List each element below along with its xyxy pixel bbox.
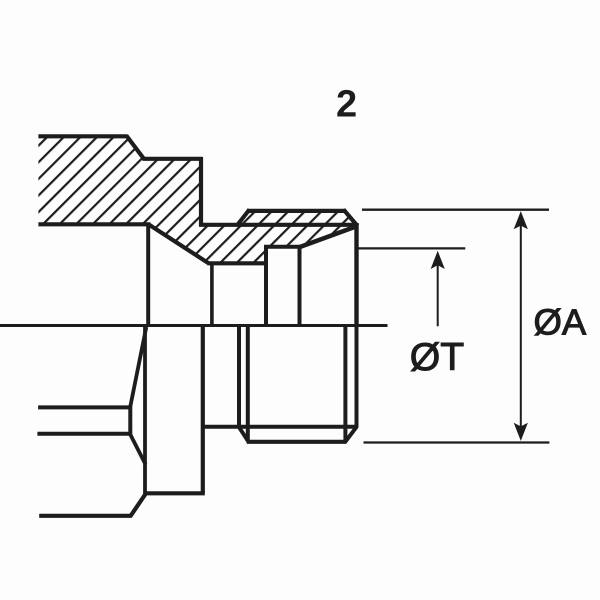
dim ØT extension line xyxy=(357,247,465,249)
nut right vertical (lower half) xyxy=(201,327,205,494)
tube lower line xyxy=(37,432,130,436)
nut flange chamfer diagonal xyxy=(130,493,146,517)
svg-text:ØA: ØA xyxy=(534,302,587,343)
thread start vertical 2 (lower) xyxy=(246,327,250,442)
cone seat diagonal (section) xyxy=(149,225,208,264)
centerline xyxy=(0,324,388,327)
thread major line (lower) xyxy=(247,440,347,444)
cone flare diagonal lower xyxy=(130,435,145,465)
nut left vertical (lower half) xyxy=(143,327,147,494)
flange right vertical xyxy=(199,157,203,226)
dim ØA arrowhead down xyxy=(514,423,528,441)
end face vertical (section) xyxy=(354,223,358,325)
collar left chamfer xyxy=(237,210,250,227)
bore top step xyxy=(264,245,302,249)
hatch bottom edge xyxy=(207,261,266,265)
flange bottom edge (lower half) xyxy=(39,514,132,518)
thread start vertical 1 (lower) xyxy=(237,327,241,428)
dim ØA extension line top xyxy=(362,209,549,211)
dim ØA vertical line xyxy=(520,222,522,430)
inner cone diagonal (section) xyxy=(299,227,357,248)
thread minor line (lower) xyxy=(203,425,357,429)
thread end vertical inner (lower) xyxy=(343,327,347,442)
dim ØT arrow vertical line xyxy=(437,258,439,326)
tube upper line xyxy=(38,405,130,409)
step top edge xyxy=(143,157,203,161)
svg-text:ØT: ØT xyxy=(410,336,464,379)
collar top edge (major dia) xyxy=(247,209,346,213)
nut bottom edge xyxy=(144,491,205,495)
dim ØA extension line bottom xyxy=(364,441,550,443)
flange top edge xyxy=(38,134,127,138)
hatched section region (upper half of fitting) xyxy=(38,136,356,263)
dim ØA arrowhead up xyxy=(514,211,528,229)
flange bottom edge xyxy=(38,222,150,226)
dim ØT arrowhead up xyxy=(431,251,445,269)
thread runout chamfer diagonal left xyxy=(239,426,249,442)
thread end vertical outer (lower) xyxy=(355,327,359,428)
tube end face vertical xyxy=(128,406,132,436)
cone flare diagonal upper xyxy=(130,327,146,407)
thread end chamfer diagonal right xyxy=(345,426,357,442)
thread minor / step line (section) xyxy=(199,223,357,227)
flange top chamfer diagonal xyxy=(126,136,144,160)
bore left vertical x=266 xyxy=(264,246,268,325)
bore right vertical x=299.5 xyxy=(298,247,302,325)
bore step vertical x=212 xyxy=(210,262,214,326)
collar right chamfer xyxy=(344,210,358,227)
flange inner vertical x=148 xyxy=(146,224,150,326)
svg-text:2: 2 xyxy=(336,84,357,126)
